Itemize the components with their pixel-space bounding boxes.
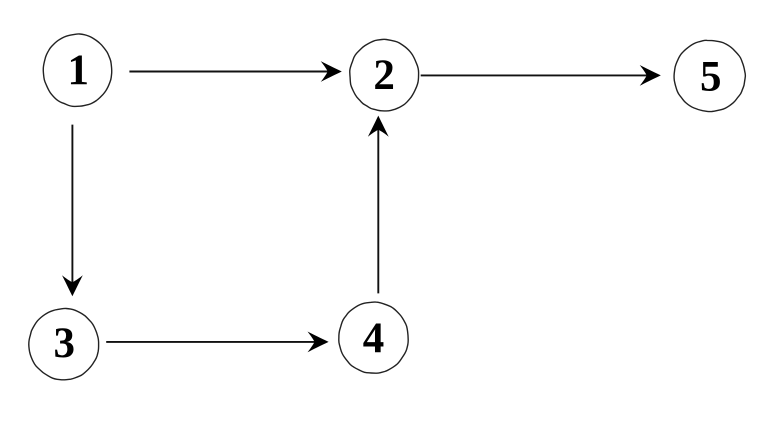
edge 1->3 wire: [71, 125, 73, 283]
edge 1->2 arrowhead: [321, 61, 342, 82]
svg-text:3: 3: [53, 320, 75, 367]
node N5: [674, 40, 745, 111]
svg-text:2: 2: [373, 52, 395, 99]
svg-text:4: 4: [363, 315, 385, 362]
node N3: [29, 308, 99, 379]
edge 3->4 wire: [106, 341, 315, 343]
edge 2->5 wire: [421, 74, 648, 76]
svg-text:1: 1: [67, 47, 89, 94]
node N4: [339, 302, 408, 373]
edge 4->2 arrowhead: [368, 116, 389, 137]
svg-text:5: 5: [700, 54, 722, 101]
edge 3->4 arrowhead: [308, 332, 329, 353]
node N1: [43, 34, 111, 106]
edge 4->2 wire: [377, 129, 379, 293]
edge 1->3 arrowhead: [62, 275, 83, 296]
edge 2->5 arrowhead: [640, 65, 661, 86]
node N2: [350, 39, 419, 111]
edge 1->2 wire: [129, 71, 328, 73]
